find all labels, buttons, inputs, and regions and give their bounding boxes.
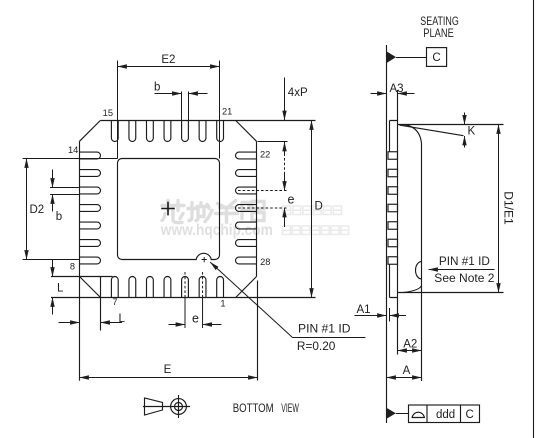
pin1 leader line xyxy=(210,262,292,337)
svg-text:A1: A1 xyxy=(357,304,371,316)
pin 4 slot (bottom edge) xyxy=(164,277,171,298)
svg-text:e: e xyxy=(192,311,199,325)
svg-text:D: D xyxy=(315,201,323,213)
svg-text:D1/E1: D1/E1 xyxy=(502,191,514,225)
svg-text:C: C xyxy=(466,409,474,421)
svg-text:15: 15 xyxy=(103,108,113,118)
pin 10 slot (left edge) xyxy=(80,222,101,229)
side view body bottom edge (D1/E1 extension) xyxy=(398,292,504,294)
pin 28 slot (right edge) xyxy=(236,257,257,264)
mold bottom corner curve xyxy=(403,286,421,293)
side view body top edge (D1/E1 extension) xyxy=(398,124,504,126)
D dimension xyxy=(311,121,313,298)
svg-text:L: L xyxy=(57,283,64,295)
e dimension (bottom pins) xyxy=(185,272,203,298)
E dim right extension line xyxy=(257,281,259,381)
pin 5 slot (bottom edge) xyxy=(147,277,154,298)
seating plane line xyxy=(386,45,388,423)
D1/E1 dimension xyxy=(498,125,500,293)
svg-text:4xP: 4xP xyxy=(288,87,308,99)
side view top leadframe column xyxy=(390,121,398,153)
pin 12 slot (left edge) xyxy=(80,187,101,194)
L dimension (left, vertical) xyxy=(52,260,54,277)
bottom-left corner box top line xyxy=(51,276,113,278)
svg-text:C: C xyxy=(432,52,440,64)
pin1 notch cross xyxy=(202,257,207,262)
A3 dimension xyxy=(371,93,387,95)
svg-text:ddd: ddd xyxy=(436,409,455,421)
svg-text:K: K xyxy=(468,125,476,137)
pin 9 slot (left edge) xyxy=(80,240,101,247)
pin 19 slot (top edge) xyxy=(182,121,189,142)
svg-text:PIN #1 ID: PIN #1 ID xyxy=(298,324,351,336)
package top-right chamfer xyxy=(236,121,257,142)
pin 24 slot (right edge) xyxy=(236,187,257,194)
datum C box xyxy=(427,48,447,67)
svg-text:A2: A2 xyxy=(403,339,417,351)
pin1 ID bump (side view) xyxy=(416,262,422,279)
svg-text:22: 22 xyxy=(260,150,270,160)
pin 21 slot (top edge) xyxy=(217,121,224,142)
pin 6 slot (bottom edge) xyxy=(129,277,136,298)
side view pin stub xyxy=(388,204,398,212)
svg-text:28: 28 xyxy=(260,257,270,267)
side view bottom leadframe column xyxy=(390,264,398,298)
pin 17 slot (top edge) xyxy=(147,121,154,142)
pin 13 slot (left edge) xyxy=(80,170,101,177)
pin 3 slot (bottom edge) xyxy=(182,277,189,298)
bottom datum triangle xyxy=(387,408,396,418)
K slant line xyxy=(400,125,464,136)
svg-text:BOTTOM: BOTTOM xyxy=(233,401,274,415)
pin 20 slot (top edge) xyxy=(199,121,206,142)
E2 dimension xyxy=(118,61,220,159)
pin 23 slot (right edge) xyxy=(236,170,257,177)
half-disc symbol xyxy=(412,412,426,417)
pin 14 slot (left edge) xyxy=(80,152,101,159)
svg-text:8: 8 xyxy=(70,261,75,271)
b dimension (left) xyxy=(50,188,80,195)
pin 22 slot (right edge) xyxy=(236,152,257,159)
pin 2 slot (bottom edge) xyxy=(199,277,206,298)
svg-text:VIEW: VIEW xyxy=(281,401,299,415)
svg-text:e: e xyxy=(288,192,295,206)
svg-text:14: 14 xyxy=(68,145,78,155)
drawing border line (right) xyxy=(533,0,535,438)
package top edge (extended right for D dim) xyxy=(100,120,315,122)
package right edge xyxy=(256,141,258,276)
watermark: big hanzi 华强芯城 xyxy=(162,201,264,223)
svg-text:b: b xyxy=(56,211,62,223)
svg-text:b: b xyxy=(154,81,160,93)
svg-text:PLANE: PLANE xyxy=(423,26,454,40)
third-angle projection symbol: cone xyxy=(143,395,190,418)
K dimension arrows xyxy=(464,113,466,125)
svg-text:A3: A3 xyxy=(389,83,403,95)
pin 11 slot (left edge) xyxy=(80,205,101,212)
side view pin stub xyxy=(388,187,398,195)
e dimension (right pins) xyxy=(238,191,288,209)
D2 dimension xyxy=(23,159,118,260)
side PIN #1 ID arrow xyxy=(429,269,495,271)
svg-text:E2: E2 xyxy=(161,54,175,66)
svg-text:www.hqchip.com: www.hqchip.com xyxy=(160,222,273,239)
4xP dimension xyxy=(284,78,286,121)
exposed pad with pin1 notch xyxy=(118,159,220,260)
svg-text:7: 7 xyxy=(112,297,117,307)
svg-text:R=0.20: R=0.20 xyxy=(297,341,336,353)
svg-text:L: L xyxy=(119,313,126,325)
E dimension xyxy=(80,377,258,379)
package bottom edge (extended left for L dim, right for D dim) xyxy=(51,297,316,299)
L dimension (bottom, horizontal) xyxy=(59,322,80,324)
package top-left chamfer xyxy=(80,121,101,142)
pin 1 slot (bottom edge) xyxy=(217,277,224,298)
svg-text:D2: D2 xyxy=(30,204,45,216)
b dimension (top) xyxy=(182,92,189,121)
svg-text:21: 21 xyxy=(222,107,232,117)
watermark: small hanzi row 1 xyxy=(283,206,342,215)
seating plane datum triangle xyxy=(387,52,396,63)
side view body left face / A3,A2 extension xyxy=(397,90,399,355)
pin 18 slot (top edge) xyxy=(164,121,171,142)
side view pin stub xyxy=(388,169,398,177)
pin 15 slot (top edge) xyxy=(111,121,118,142)
pad center cross xyxy=(161,202,175,216)
watermark: small hanzi row 2 xyxy=(283,226,349,235)
side view pin stub xyxy=(388,239,398,247)
svg-text:See Note 2: See Note 2 xyxy=(434,273,494,285)
datum feature frame [half-disc | ddd | C] xyxy=(409,405,480,423)
pin 7 slot (bottom edge) xyxy=(111,277,118,298)
pin 8 slot (left edge) xyxy=(80,257,101,264)
pin 26 slot (right edge) xyxy=(236,222,257,229)
svg-text:PIN #1 ID: PIN #1 ID xyxy=(439,256,490,268)
mold top corner curve xyxy=(403,125,421,144)
side view pin stub xyxy=(388,152,398,160)
pin 16 slot (top edge) xyxy=(129,121,136,142)
A1 dimension xyxy=(355,315,387,317)
svg-text:A: A xyxy=(403,365,411,377)
bottom-left corner diagonal xyxy=(80,277,101,298)
side view pin stub xyxy=(388,257,398,265)
third-angle projection symbol: circle target xyxy=(171,399,187,415)
package left edge (extended down for E dim) xyxy=(79,141,81,380)
bottom-left corner vertical / L dim extension xyxy=(100,277,102,331)
svg-text:1: 1 xyxy=(220,298,225,308)
svg-text:E: E xyxy=(164,364,172,376)
pin 27 slot (right edge) xyxy=(236,240,257,247)
side view mold far face / A,A2 extension xyxy=(421,144,423,382)
A dimension xyxy=(387,377,422,379)
pin 25 slot (right edge) xyxy=(236,205,257,212)
package bottom-right chamfer xyxy=(236,277,257,298)
side view pin stub xyxy=(388,222,398,230)
A2 dimension xyxy=(398,350,422,352)
